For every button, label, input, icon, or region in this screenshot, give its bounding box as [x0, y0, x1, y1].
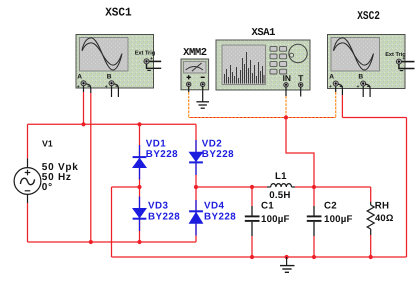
pin XSC2 A terminal	[329, 81, 343, 95]
node ground stem	[285, 255, 289, 259]
node mid2 bridge positive	[194, 185, 198, 189]
pin XSA1 T terminal	[299, 83, 303, 97]
node RH bottom	[369, 255, 373, 259]
svg-text:L1: L1	[275, 171, 287, 182]
node column1 on top bus	[137, 122, 141, 126]
svg-text:VD3: VD3	[148, 200, 169, 211]
svg-text:+: +	[357, 84, 360, 90]
spectrum bars XSA1 screen	[225, 52, 265, 84]
pin XSC1 ext trig terminal	[144, 56, 161, 71]
svg-text:50 Hz: 50 Hz	[42, 172, 72, 183]
pin XSC1 A terminal	[77, 81, 91, 93]
svg-text:0°: 0°	[42, 182, 53, 193]
knob XSA1	[289, 44, 307, 62]
svg-text:+: +	[105, 84, 108, 90]
wire XSC2 A- horizontal	[342, 117, 406, 119]
wire XSC2 A- drop	[341, 95, 343, 118]
wire AC2 bus V1-	[28, 241, 197, 243]
svg-text:+: +	[402, 56, 405, 62]
node C2 bottom	[312, 255, 316, 259]
wire XSC1 A+ drop	[83, 92, 85, 124]
source V1	[14, 159, 41, 204]
wire RH bottom drop	[370, 235, 372, 257]
ground XMM2	[196, 102, 209, 108]
diode VD2	[189, 140, 203, 175]
inductor L1	[267, 184, 295, 187]
svg-text:+: +	[329, 84, 332, 90]
svg-text:B: B	[358, 74, 363, 81]
svg-text:V1: V1	[42, 138, 53, 148]
diode VD3	[133, 197, 147, 232]
wire C1 bottom drop	[251, 236, 253, 257]
svg-text:VD2: VD2	[202, 139, 223, 150]
svg-text:VD1: VD1	[146, 139, 167, 150]
svg-text:100µF: 100µF	[261, 214, 290, 225]
svg-text:A: A	[329, 74, 334, 81]
svg-text:T: T	[298, 73, 304, 83]
diode VD1	[133, 145, 147, 180]
wire C2 top drop	[313, 187, 315, 206]
wire C1 top drop	[251, 187, 253, 206]
wire ground rail bottom	[112, 256, 407, 258]
capacitor C1	[245, 206, 260, 236]
oscilloscope U_XSC2 box	[328, 35, 406, 89]
node L1 right / C2 top	[312, 185, 316, 189]
svg-text:RH: RH	[375, 201, 389, 212]
wire bridge column 2 vertical	[195, 124, 197, 242]
resistor RH	[367, 202, 374, 235]
node XSC1 A- on AC2 bus	[89, 240, 93, 244]
wire V1 bottom lead drop	[27, 203, 29, 242]
ground main	[280, 257, 295, 272]
oscilloscope U_XSC1 box	[76, 35, 154, 89]
diode VD4	[189, 200, 203, 236]
svg-text:100µF: 100µF	[324, 214, 353, 225]
wire V1 top lead drop	[27, 124, 29, 158]
svg-text:C1: C1	[261, 200, 274, 211]
wire mid2 positive bus right of L1	[295, 186, 371, 188]
pin XSC2 ext trig terminal	[396, 56, 414, 71]
pin XMM2 plus terminal	[187, 82, 191, 92]
wire C2 bottom drop	[313, 236, 315, 257]
svg-text:C2: C2	[324, 200, 337, 211]
wire right edge vertical XSC2 A- to ground rail	[406, 118, 408, 258]
svg-text:0.5H: 0.5H	[269, 190, 290, 201]
pin XSC1 B terminal	[105, 81, 119, 97]
svg-text:IN: IN	[283, 73, 291, 83]
pin XMM2 minus terminal	[201, 82, 205, 101]
svg-text:XSC2: XSC2	[357, 9, 380, 23]
svg-text:B: B	[107, 74, 112, 81]
node mid1 bridge negative	[137, 185, 141, 189]
node C1 top	[250, 185, 254, 189]
svg-text:BY228: BY228	[146, 149, 178, 160]
node column1 on AC2 bus	[137, 240, 141, 244]
svg-text:40Ω: 40Ω	[375, 212, 394, 223]
wire RH top drop	[370, 187, 372, 202]
svg-text:XSA1: XSA1	[251, 27, 275, 39]
wire orange measurement bus horizontal	[189, 117, 336, 119]
wire mid1 negative output to left	[112, 186, 140, 188]
wire red drop from orange junction to L1 right node	[286, 118, 314, 188]
wire mid2 positive bus through L1	[196, 186, 267, 188]
wire top AC bus V1+ to bridge	[28, 123, 197, 125]
svg-text:BY228: BY228	[202, 149, 234, 160]
wire bridge column 1 vertical	[139, 124, 141, 242]
svg-text:XSC1: XSC1	[105, 6, 132, 20]
wire XSC1 A- drop to AC2 bus	[90, 93, 92, 242]
svg-text:VD4: VD4	[204, 200, 225, 211]
svg-text:+: +	[77, 84, 80, 90]
node orange bus junction	[284, 115, 288, 119]
svg-text:XMM2: XMM2	[183, 47, 207, 59]
wire XMM2 plus drop orange	[188, 92, 190, 118]
node C1 bottom	[250, 255, 254, 259]
capacitor C2	[307, 206, 322, 236]
svg-text:BY228: BY228	[204, 211, 236, 222]
wire XSC2 A+ drop orange	[335, 92, 337, 118]
svg-text:A: A	[77, 74, 82, 81]
spectrum analyzer U_XSA1 box	[216, 40, 310, 90]
pin XSA1 IN terminal	[284, 83, 288, 96]
wire left drop to ground rail	[111, 187, 113, 257]
svg-text:+: +	[150, 56, 153, 62]
buttons XSA1 keypad	[270, 46, 287, 74]
node XSC1 A+ on top bus	[81, 122, 85, 126]
multimeter U_XMM2 box	[181, 59, 209, 90]
pin XSC2 B terminal	[357, 81, 371, 97]
svg-text:BY228: BY228	[148, 211, 180, 222]
wire XSA1 IN drop orange	[285, 96, 287, 118]
